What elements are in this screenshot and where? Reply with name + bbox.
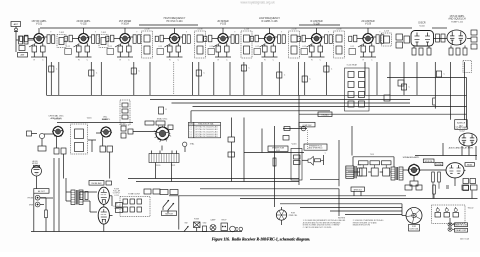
svg-text:SPKR OUT: SPKR OUT (354, 189, 362, 191)
svg-text:K-101 RELAY: K-101 RELAY (347, 64, 358, 67)
svg-text:V-112: V-112 (459, 130, 465, 132)
svg-text:T-102: T-102 (59, 32, 64, 34)
svg-text:PHONE: PHONE (28, 198, 34, 200)
svg-text:NOTES: NOTES (338, 217, 346, 219)
svg-text:C-12: C-12 (209, 46, 213, 48)
svg-text:ANT: ANT (14, 23, 19, 26)
svg-text:www.royalsignals.org.uk: www.royalsignals.org.uk (241, 0, 276, 4)
svg-text:Figure 116. Radio Receiver R-: Figure 116. Radio Receiver R-108/FRC-1, … (212, 238, 311, 242)
svg-text:HF OSC V-104: HF OSC V-104 (167, 20, 184, 23)
svg-text:V-105: V-105 (220, 23, 227, 26)
svg-text:IF AMPL: IF AMPL (102, 118, 111, 121)
svg-text:R-161: R-161 (121, 124, 126, 126)
svg-text:OSC ADJ: OSC ADJ (321, 114, 328, 117)
svg-text:REMOTE CONT: REMOTE CONT (455, 225, 467, 227)
svg-text:Z-108: Z-108 (337, 29, 342, 31)
svg-text:V-101: V-101 (36, 23, 43, 26)
svg-text:T-115: T-115 (370, 154, 374, 156)
svg-text:V-102: V-102 (80, 23, 87, 26)
svg-text:AND SPKR FIELD: AND SPKR FIELD (309, 147, 324, 150)
svg-text:XTAL: XTAL (190, 143, 195, 146)
svg-text:SPKR CBL: SPKR CBL (425, 161, 433, 163)
svg-text:Z-108: Z-108 (244, 29, 249, 31)
svg-text:V-115: V-115 (276, 150, 280, 152)
svg-text:C CAP IN UUF AND NOT ON DWG: C CAP IN UUF AND NOT ON DWG (303, 226, 332, 229)
svg-text:LAMP: LAMP (211, 219, 217, 222)
svg-text:SWITCH: SWITCH (165, 213, 173, 215)
svg-text:C-12: C-12 (255, 46, 259, 48)
svg-text:Z-108: Z-108 (145, 29, 150, 31)
svg-text:METER: METER (32, 163, 39, 165)
svg-text:C-12: C-12 (66, 46, 70, 48)
svg-text:CRYSTAL OSC: CRYSTAL OSC (48, 115, 64, 118)
svg-text:SW: SW (185, 223, 188, 225)
svg-text:FUSE: FUSE (194, 219, 200, 221)
svg-text:MEAS WITH A VTVM: MEAS WITH A VTVM (353, 224, 371, 227)
svg-text:V-113: V-113 (114, 195, 119, 197)
svg-text:T-1: T-1 (190, 129, 192, 131)
svg-text:C-12: C-12 (108, 46, 112, 48)
svg-text:RECP: RECP (222, 220, 228, 222)
svg-text:V-108: V-108 (313, 23, 320, 26)
svg-text:T-120: T-120 (156, 165, 161, 167)
svg-text:PHONE: PHONE (436, 164, 442, 166)
svg-text:TB-102: TB-102 (468, 208, 474, 210)
svg-text:T-102: T-102 (101, 32, 106, 34)
svg-text:2D DET: 2D DET (54, 119, 62, 121)
svg-text:SQUELCH: SQUELCH (457, 123, 466, 125)
svg-text:RELAY CONT: RELAY CONT (456, 229, 467, 232)
svg-text:Z-108: Z-108 (198, 29, 203, 31)
svg-text:V-103A: V-103A (121, 23, 129, 26)
svg-text:CONT CBL: CONT CBL (409, 229, 418, 231)
svg-text:V-109: V-109 (365, 23, 372, 26)
svg-text:AND SQUELCH: AND SQUELCH (448, 18, 466, 21)
svg-text:AF OUT: AF OUT (38, 190, 45, 193)
svg-text:C-12: C-12 (302, 46, 306, 48)
svg-text:T-1: T-1 (190, 126, 192, 128)
svg-text:TUBE V-111: TUBE V-111 (451, 21, 464, 23)
svg-text:ADJ: ADJ (459, 125, 462, 128)
svg-text:Z-113: Z-113 (384, 31, 389, 33)
svg-text:T-1: T-1 (190, 136, 192, 138)
svg-text:PWR CBL: PWR CBL (289, 215, 298, 217)
svg-text:T-1: T-1 (190, 134, 192, 136)
svg-text:IF AMPL V-106: IF AMPL V-106 (262, 20, 279, 23)
svg-text:C-12: C-12 (158, 46, 162, 48)
svg-text:C-12: C-12 (350, 46, 354, 48)
svg-text:DISCR: DISCR (418, 23, 425, 25)
svg-text:TONE CONT: TONE CONT (128, 194, 141, 196)
svg-text:Z-108: Z-108 (292, 29, 297, 31)
svg-text:V-116: V-116 (291, 144, 297, 146)
svg-text:XTAL OSC: XTAL OSC (157, 118, 168, 121)
svg-text:T-1: T-1 (190, 131, 192, 133)
svg-text:TP: TP (35, 174, 37, 176)
svg-text:SPEAKER AMPL: SPEAKER AMPL (403, 156, 421, 159)
svg-text:AGO 10A: AGO 10A (460, 237, 469, 240)
svg-text:V-110: V-110 (419, 25, 425, 27)
svg-text:AUDIO AND RELAY AMPL: AUDIO AND RELAY AMPL (449, 147, 475, 150)
